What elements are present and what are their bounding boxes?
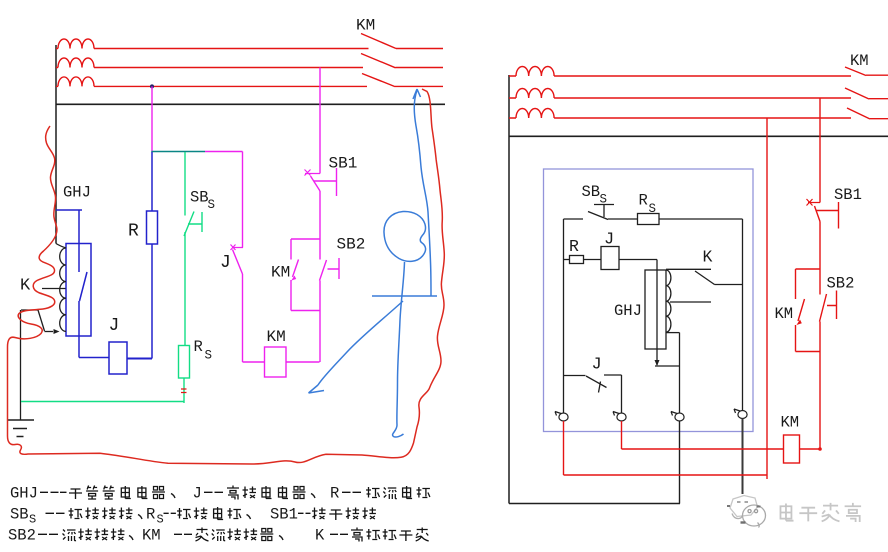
wire: red dropper from L2 to SB1 (right) bbox=[819, 98, 821, 203]
wire: magenta below SB1 bbox=[319, 191, 321, 239]
svg-text:R: R bbox=[194, 338, 203, 356]
wire: phase L2 right segment bbox=[396, 67, 444, 69]
wire: reed bottom horizontal bbox=[655, 365, 680, 367]
wire: coil bottom down to terminal 3 bbox=[679, 333, 681, 413]
legend line 2 hanzi: ting-zhi-an-niu bbox=[312, 508, 326, 520]
svg-text:R: R bbox=[146, 506, 155, 524]
contactor KM main contact pole 1 (right) bbox=[845, 67, 866, 76]
wire: left main black bus vertical bbox=[55, 45, 57, 244]
wire: bottom rung SB2/KM parallel (right) bbox=[796, 351, 821, 353]
watermark logo doodle bbox=[727, 496, 766, 528]
wire: phase L1 red line left segment bbox=[56, 48, 369, 50]
inductor coil phase L1 (left) bbox=[58, 39, 94, 49]
ground symbol bbox=[7, 420, 34, 437]
wire: reed switch vertical through GHJ box bbox=[656, 260, 658, 366]
svg-text:J: J bbox=[604, 231, 614, 250]
wire: red from terminal 1 down bbox=[563, 421, 565, 475]
svg-text:KM: KM bbox=[267, 328, 286, 346]
svg-text:KM: KM bbox=[356, 17, 375, 35]
wire: ground riser vertical bbox=[20, 310, 22, 420]
svg-text:R: R bbox=[128, 222, 139, 242]
pushbutton SB2 (right): upper lead bbox=[819, 269, 821, 295]
wire: KM coil right lead bbox=[800, 352, 821, 450]
GHJ relay coil winding (right bumps) bbox=[666, 270, 671, 332]
wire: blue vertical into GHJ box bbox=[78, 210, 80, 272]
resistor Rs (right) bbox=[638, 214, 660, 225]
wire: right phase 3 red line bbox=[509, 117, 851, 119]
relay J coil box (left, blue) bbox=[109, 342, 127, 374]
legend comma 2b bbox=[247, 515, 251, 520]
terminal 2 bbox=[613, 412, 626, 422]
freehand blue arrow at top bbox=[413, 89, 421, 99]
wire: KM coil to branch bottom bbox=[286, 361, 320, 363]
contactor KM main contact pole 3 (left) bbox=[362, 74, 395, 87]
wire: green horizontal to ground riser bbox=[21, 401, 184, 403]
relay contact J blade (right) bbox=[586, 376, 607, 393]
svg-text:J: J bbox=[109, 316, 120, 336]
wire: coil bottom tail bbox=[666, 332, 680, 334]
wire: magenta into KM coil bbox=[243, 361, 265, 363]
wire: inner right vertical bbox=[742, 219, 744, 410]
svg-text:SB: SB bbox=[190, 189, 209, 207]
pushbutton SBs blade (green) bbox=[184, 212, 194, 237]
wire: green SBs branch upper bbox=[184, 152, 186, 216]
svg-text:KM: KM bbox=[781, 414, 800, 432]
contactor KM main contact pole 1 (left) bbox=[361, 34, 396, 49]
contactor KM main contact pole 2 (left) bbox=[361, 54, 396, 68]
wire: magenta control riser from L3 bbox=[151, 86, 153, 152]
inductor coil phase 2 (right) bbox=[516, 88, 554, 98]
freehand red annotation outline bbox=[8, 89, 445, 464]
wire: SB2 lower lead bbox=[319, 281, 321, 311]
pushbutton SB1 actuator T-bar (right) bbox=[816, 202, 839, 229]
pushbutton SB1 blade bbox=[311, 176, 321, 191]
terminal 4 bbox=[734, 409, 747, 419]
wire: KM aux lower lead bbox=[290, 280, 292, 311]
wire: magenta below J contact bbox=[242, 274, 244, 362]
wire: top rung of SB2/KM parallel bbox=[291, 238, 320, 240]
svg-text:GHJ: GHJ bbox=[614, 302, 642, 320]
inductor coil phase L3 (left) bbox=[58, 77, 94, 87]
wire: teal horizontal segment bbox=[151, 151, 205, 153]
pushbutton SB1 blade (right) bbox=[815, 206, 821, 222]
wire: magenta J-contact branch vertical bbox=[242, 152, 244, 248]
wire: magenta horizontal segment to J branch bbox=[205, 151, 243, 153]
pushbutton SB2 blade bbox=[320, 260, 327, 281]
legend line 1 hanzi: gan-huang-guan-ji-dian-qi bbox=[69, 489, 82, 499]
GHJ relay coil winding (black bumps) bbox=[56, 244, 66, 332]
svg-text:SB2: SB2 bbox=[337, 236, 366, 254]
legend comma 1b bbox=[311, 494, 315, 499]
pushbutton SB1 (left): top foot and cross bbox=[305, 170, 321, 176]
legend line 2 hanzi: shi-yan-dian-zu bbox=[177, 508, 191, 519]
wire: bottom rung of SB2/KM parallel bbox=[291, 310, 320, 312]
legend line 1 hanzi: xian-liu-dian-zu bbox=[366, 487, 380, 498]
wire: red horizontal to KM coil bbox=[622, 448, 784, 450]
inductor coil phase 3 (right) bbox=[516, 108, 554, 118]
svg-text:J: J bbox=[193, 485, 202, 503]
wire: top wire right part bbox=[659, 218, 743, 220]
resistor Rs (left, green) bbox=[179, 346, 190, 379]
svg-text:SB2: SB2 bbox=[8, 527, 36, 545]
wire: top rung SB2/KM parallel (right) bbox=[796, 268, 821, 270]
watermark text dian-gong-zhi-jia bbox=[780, 504, 793, 521]
wire: top wire middle part bbox=[608, 218, 638, 220]
inductor coil phase L2 (left) bbox=[58, 58, 94, 68]
svg-text:SB1: SB1 bbox=[329, 155, 358, 173]
wire: coil middle tap bbox=[670, 301, 711, 303]
relay contact J blade bbox=[233, 250, 243, 275]
wire: phase L2 red line left segment bbox=[56, 67, 363, 69]
wire: right main black bus vertical bbox=[508, 75, 510, 504]
legend comma 3a bbox=[129, 536, 133, 541]
contactor KM main contact pole 3 (right) bbox=[847, 108, 870, 119]
svg-text:R: R bbox=[330, 485, 339, 503]
wire: left neutral black horizontal line bbox=[56, 103, 445, 105]
legend comma 2a bbox=[138, 515, 142, 520]
relay contact J (right bottom): left lead bbox=[564, 375, 586, 377]
freehand blue horizontal stroke bbox=[372, 295, 437, 297]
node: dot at KM coil corner bbox=[818, 447, 822, 451]
legend comma 1a bbox=[171, 494, 175, 499]
wire: red from terminal 2 down bbox=[621, 421, 623, 449]
freehand blue arm line with hook bbox=[309, 301, 404, 393]
wire: K blade throw with arrow into coil bottom bbox=[45, 331, 54, 333]
svg-text:GHJ: GHJ bbox=[63, 184, 91, 202]
freehand blue body line with hook bbox=[393, 262, 405, 437]
svg-text:J: J bbox=[220, 253, 231, 273]
wire: black below terminal 3 to bottom return bbox=[679, 421, 681, 504]
wire: magenta down to KM coil level bbox=[319, 311, 321, 363]
svg-text:SB: SB bbox=[10, 506, 29, 524]
wire: blue horizontal GHJ bottom to J-box left bbox=[79, 357, 109, 359]
pushbutton SB1 actuator T-bar bbox=[314, 168, 337, 196]
legend comma 3b bbox=[279, 536, 283, 541]
wire: red horizontal to dropper bbox=[564, 474, 768, 476]
wire: phase L1 right segment bbox=[396, 48, 443, 50]
wire: right phase 3 after contact bbox=[870, 118, 888, 120]
svg-text:K: K bbox=[20, 277, 31, 296]
svg-text:SB: SB bbox=[582, 183, 601, 201]
switch K blade bbox=[38, 310, 45, 331]
pushbutton SBs actuator T-bar bbox=[188, 212, 202, 232]
wire: blue below R down bbox=[151, 244, 153, 359]
wire: R to J box bbox=[584, 259, 602, 261]
pushbutton SBs blade (right) bbox=[588, 212, 608, 220]
freehand blue head blob bbox=[384, 211, 426, 261]
svg-text:GHJ: GHJ bbox=[10, 485, 38, 503]
svg-text:K: K bbox=[315, 527, 325, 545]
svg-text:KM: KM bbox=[850, 52, 869, 70]
wire: SB2 lower lead (right) bbox=[819, 322, 821, 352]
wire: J box to GHJ reed bbox=[619, 259, 657, 261]
reed relay GHJ envelope box (right) bbox=[645, 270, 666, 349]
wire: right neutral black horizontal bbox=[509, 135, 888, 137]
svg-text:S: S bbox=[205, 349, 213, 363]
pushbutton SB1 (right): foot and cross bbox=[807, 199, 821, 206]
svg-text:KM: KM bbox=[271, 264, 290, 282]
svg-text:S: S bbox=[157, 513, 164, 527]
svg-text:S: S bbox=[29, 513, 36, 527]
wire: magenta SB1 riser from L2 bbox=[319, 68, 321, 174]
legend line 2 hanzi: shi-yan-an-niu bbox=[69, 508, 83, 519]
wire: right phase 1 red line bbox=[509, 75, 851, 77]
contactor coil KM box (left, magenta) bbox=[265, 347, 287, 377]
wire: right black bottom return to terminal 3 bbox=[509, 503, 680, 505]
frame: periwinkle box around relay unit bbox=[544, 169, 754, 432]
wire: phase L3 right segment bbox=[395, 85, 443, 87]
contactor coil KM box (right, red) bbox=[784, 435, 800, 463]
wire: green below Rs bbox=[183, 378, 185, 403]
wire: KM aux lower lead (right) bbox=[795, 325, 797, 352]
legend line 1 hanzi: ling-min-ji-dian-qi bbox=[227, 486, 239, 500]
pushbutton SB2 actuator T-bar (right) bbox=[827, 291, 837, 320]
contactor KM main contact pole 2 (right) bbox=[845, 88, 869, 99]
red tick marks on green wire bbox=[181, 389, 187, 393]
wire: red dropper from L3 (right) bbox=[766, 118, 768, 479]
resistor R (right) bbox=[570, 256, 584, 264]
legend line 3 hanzi: qi-dong-an-niu bbox=[63, 530, 77, 542]
reed switch blade inside GHJ (left) bbox=[80, 272, 88, 301]
wire: K switch pole from ground riser bbox=[21, 309, 38, 311]
wire: K switch upper tap to coil middle bbox=[42, 288, 66, 290]
wire: right phase 1 after contact bbox=[866, 74, 888, 76]
wire: black below terminal 4 bbox=[742, 419, 744, 495]
wire: red below SB1 bbox=[819, 222, 821, 270]
resistor R (left, blue) bbox=[147, 211, 158, 244]
wire: blue horizontal J-box right to R branch bbox=[127, 358, 152, 360]
svg-text:S: S bbox=[649, 202, 657, 216]
relay contact J (magenta): fixed tick bbox=[231, 245, 244, 251]
svg-text:J: J bbox=[592, 356, 602, 375]
contact KM auxiliary blade with arrow bbox=[293, 260, 299, 278]
terminal 1 bbox=[555, 412, 568, 422]
svg-text:S: S bbox=[600, 193, 608, 207]
switch K blade (right) bbox=[695, 271, 715, 285]
svg-text:SB1: SB1 bbox=[834, 186, 862, 204]
terminal 3 bbox=[671, 412, 684, 422]
wire: green below SBs bbox=[184, 232, 186, 346]
wire: R resistor left lead (right schematic) bbox=[564, 259, 570, 261]
svg-text:R: R bbox=[639, 192, 648, 210]
wire: K common to right vertical bbox=[715, 284, 743, 286]
svg-text:S: S bbox=[208, 198, 216, 212]
svg-text:KM: KM bbox=[775, 305, 794, 323]
contact KM auxiliary blade (right) bbox=[798, 299, 805, 321]
reed relay GHJ envelope box (left, blue) bbox=[66, 244, 91, 337]
inductor coil phase 1 (right) bbox=[516, 66, 554, 76]
wire: blue branch down from junction bbox=[151, 152, 153, 211]
svg-text:KM: KM bbox=[142, 527, 161, 545]
wire: right phase 2 after contact bbox=[869, 98, 888, 100]
wire: blue tick from black bus bbox=[56, 209, 82, 211]
legend line 3 hanzi: jiao-liu-jie-chu-qi bbox=[196, 528, 209, 542]
wire: J contact right lead bbox=[604, 375, 622, 413]
contact KM auxiliary (left): upper lead bbox=[290, 239, 292, 260]
svg-text:K: K bbox=[703, 248, 713, 267]
wire: phase L3 red line left segment bbox=[56, 85, 367, 87]
pushbutton SB2 actuator T-bar bbox=[328, 258, 340, 279]
svg-text:SB1: SB1 bbox=[270, 506, 298, 524]
node: junction dot on L3 at control branch bbox=[150, 84, 154, 88]
wire: inner top wire left part bbox=[564, 218, 584, 220]
relay J coil box (right) bbox=[601, 247, 619, 270]
contact KM auxiliary (right): upper lead bbox=[795, 269, 797, 299]
pushbutton SB2 blade (right) bbox=[820, 294, 827, 322]
wire: inner left vertical bbox=[563, 219, 565, 413]
pushbutton SBs actuator T-bar (right) bbox=[594, 205, 614, 218]
wire: coil top tap bbox=[666, 268, 711, 270]
legend line 3 hanzi: gao-di-dang-kai-guan bbox=[351, 528, 363, 542]
pushbutton SB2 (left): upper lead bbox=[319, 239, 321, 260]
svg-text:SB2: SB2 bbox=[827, 275, 855, 293]
freehand blue curve down from arrow bbox=[414, 90, 431, 296]
wire: right phase 2 red line bbox=[509, 97, 851, 99]
svg-text:R: R bbox=[569, 237, 579, 256]
wire: blue vertical below GHJ contact bbox=[78, 301, 80, 358]
